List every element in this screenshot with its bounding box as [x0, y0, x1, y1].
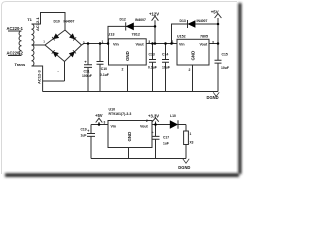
svg-text:D13: D13 [180, 19, 186, 23]
svg-text:Vout: Vout [140, 125, 149, 129]
svg-text:3: 3 [212, 40, 214, 44]
svg-text:10uF: 10uF [221, 66, 229, 70]
svg-text:U152: U152 [177, 35, 186, 39]
svg-text:IN4007: IN4007 [135, 18, 146, 22]
svg-text:3: 3 [148, 40, 150, 44]
svg-text:D10: D10 [54, 20, 60, 24]
svg-text:0.1uF: 0.1uF [148, 65, 157, 69]
svg-text:GND: GND [191, 51, 196, 61]
svg-text:3: 3 [104, 121, 106, 125]
svg-text:0.1uF: 0.1uF [100, 73, 109, 77]
svg-text:+5V: +5V [211, 9, 219, 14]
svg-text:DGND: DGND [207, 95, 219, 100]
svg-text:C14: C14 [162, 53, 168, 57]
svg-text:C13: C13 [149, 53, 155, 57]
svg-text:C10: C10 [101, 67, 107, 71]
svg-text:C11: C11 [84, 69, 90, 73]
svg-text:2: 2 [146, 119, 148, 123]
svg-text:DGND: DGND [178, 165, 190, 170]
svg-text:1: 1 [102, 40, 104, 44]
svg-text:100uF: 100uF [82, 74, 92, 78]
svg-text:T1: T1 [27, 17, 32, 22]
svg-text:X3: X3 [190, 141, 194, 145]
svg-text:AC220-1: AC220-1 [7, 26, 24, 31]
svg-text:7812: 7812 [132, 32, 140, 36]
svg-text:GND: GND [125, 51, 130, 61]
svg-text:10uF: 10uF [162, 65, 170, 69]
svg-text:U10: U10 [109, 107, 116, 111]
svg-text:AC12-1: AC12-1 [35, 16, 40, 31]
svg-text:2: 2 [122, 67, 124, 71]
svg-text:GND: GND [127, 132, 132, 142]
svg-text:Trans: Trans [15, 62, 26, 67]
svg-text:AC220-2: AC220-2 [7, 50, 24, 55]
svg-text:+3.3V: +3.3V [148, 113, 159, 118]
svg-text:2: 2 [83, 41, 85, 45]
svg-text:1uF: 1uF [81, 134, 87, 138]
svg-text:Vin: Vin [111, 125, 117, 129]
svg-text:AC12-3: AC12-3 [37, 69, 42, 84]
svg-text:1uF: 1uF [163, 142, 169, 146]
svg-text:IN4007: IN4007 [197, 19, 208, 23]
svg-text:C17: C17 [163, 136, 169, 140]
svg-text:+12V: +12V [149, 12, 159, 17]
svg-text:1: 1 [172, 40, 174, 44]
svg-text:D12: D12 [120, 18, 126, 22]
svg-text:C19: C19 [81, 128, 87, 132]
svg-text:Vout: Vout [136, 42, 145, 46]
svg-text:C15: C15 [222, 53, 228, 57]
svg-text:Vin: Vin [113, 42, 120, 46]
svg-text:2: 2 [189, 68, 191, 72]
svg-text:Vin: Vin [179, 42, 185, 46]
svg-text:+5V: +5V [95, 113, 103, 118]
svg-text:7805: 7805 [200, 35, 208, 39]
svg-text:U13: U13 [108, 32, 115, 36]
svg-text:L10: L10 [170, 114, 176, 118]
svg-text:Vout: Vout [200, 42, 209, 46]
svg-text:1: 1 [190, 132, 192, 136]
svg-text:IN4007: IN4007 [64, 20, 75, 24]
svg-text:-: - [58, 69, 59, 73]
svg-text:RT9161(7)-3.3: RT9161(7)-3.3 [109, 112, 132, 116]
